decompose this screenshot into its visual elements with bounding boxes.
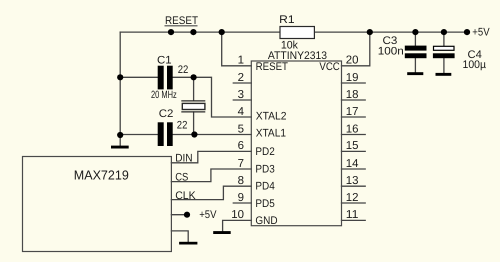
svg-text:2: 2: [238, 72, 244, 84]
svg-text:CS: CS: [175, 172, 188, 184]
junction dot RESET rail left: [168, 29, 174, 35]
svg-text:PD3: PD3: [255, 163, 274, 175]
wire pin 15 stub: [342, 150, 366, 152]
svg-text:22: 22: [178, 64, 189, 76]
svg-text:20: 20: [346, 55, 359, 67]
capacitor C1 22: [157, 54, 188, 89]
net label RESET: [165, 15, 199, 27]
svg-text:XTAL1: XTAL1: [256, 127, 286, 139]
junction dot pin1 riser: [219, 29, 225, 35]
wire pin 16 stub: [342, 134, 366, 136]
ground below C2: [111, 146, 129, 149]
junction dot C3: [412, 29, 418, 35]
svg-text:4: 4: [238, 106, 245, 118]
svg-text:MAX7219: MAX7219: [74, 168, 129, 183]
svg-text:5: 5: [238, 123, 244, 135]
wire pin 14 stub: [342, 168, 366, 170]
svg-text:3: 3: [238, 89, 244, 101]
svg-text:14: 14: [346, 158, 359, 170]
wire DIN to pin 6: [171, 151, 251, 162]
svg-text:18: 18: [346, 89, 359, 101]
wire C1 row to crystal top / XTAL2: [120, 76, 158, 78]
junction dot VCC riser: [367, 29, 373, 35]
wire CS to pin 7: [171, 169, 251, 182]
svg-text:RESET: RESET: [256, 61, 289, 73]
IC U1 ATTINY2313: [251, 50, 341, 227]
+5V supply terminal top right: [464, 27, 490, 39]
wire C2 row to XTAL1: [120, 134, 158, 136]
svg-text:15: 15: [346, 140, 359, 152]
wire crystal vertical bottom: [193, 112, 195, 135]
svg-text:7: 7: [238, 158, 244, 170]
junction dot crystal bottom node: [191, 131, 197, 137]
wire pin 18 stub: [342, 99, 366, 101]
junction dot C4: [441, 29, 447, 35]
svg-text:13: 13: [346, 175, 359, 187]
wire MAX7219 ground: [171, 231, 188, 242]
svg-text:C1: C1: [157, 54, 172, 66]
wire pin 10 GND to ground: [223, 220, 252, 231]
capacitor C2 22: [158, 108, 188, 146]
capacitor C3 100n: [378, 35, 427, 58]
wire top +5V rail: [120, 31, 467, 33]
wire pin 9 stub: [233, 202, 251, 204]
svg-text:PD4: PD4: [255, 181, 274, 193]
svg-text:19: 19: [346, 72, 359, 84]
svg-text:PD5: PD5: [255, 198, 274, 210]
wire CLK to pin 8: [171, 186, 251, 199]
ground at pin 10: [213, 231, 231, 234]
svg-text:20 MHz: 20 MHz: [151, 89, 177, 101]
wire pin 3 stub: [233, 99, 251, 101]
svg-text:DIN: DIN: [175, 153, 192, 165]
resistor R1: [279, 14, 314, 51]
ground below C4: [436, 73, 452, 76]
junction dot crystal top node: [191, 74, 197, 80]
svg-text:9: 9: [238, 192, 244, 204]
wire pin 20 VCC riser: [342, 32, 370, 66]
svg-text:22: 22: [177, 119, 188, 131]
svg-text:CLK: CLK: [175, 190, 196, 202]
wire pin 11 stub: [342, 219, 366, 221]
svg-text:+5V: +5V: [199, 209, 217, 221]
svg-text:8: 8: [238, 175, 244, 187]
svg-text:100n: 100n: [378, 45, 404, 57]
ground below MAX7219: [179, 242, 197, 245]
crystal Q1 20 MHz: [151, 89, 205, 112]
svg-text:16: 16: [346, 123, 359, 135]
svg-text:GND: GND: [255, 215, 277, 227]
junction dot left rail C1: [117, 74, 123, 80]
junction dot RESET rail right: [190, 29, 196, 35]
svg-text:10: 10: [231, 209, 244, 221]
wire pin1 RESET riser: [222, 32, 252, 66]
svg-text:+5V: +5V: [472, 27, 490, 39]
svg-text:R1: R1: [279, 14, 294, 26]
capacitor C4 100u electrolytic: [433, 46, 487, 71]
svg-text:XTAL2: XTAL2: [256, 111, 287, 123]
svg-text:100µ: 100µ: [463, 59, 487, 71]
svg-text:6: 6: [238, 140, 244, 152]
wire MAX7219 +5V stub: [171, 214, 187, 216]
wire pin 13 stub: [342, 185, 366, 187]
wire C3 drop: [414, 32, 416, 46]
svg-text:VCC: VCC: [319, 61, 339, 73]
svg-text:ATTINY2313: ATTINY2313: [268, 50, 327, 62]
svg-text:12: 12: [346, 192, 359, 204]
wire crystal vertical top: [193, 77, 195, 101]
wire C4 drop: [443, 32, 445, 46]
svg-text:PD2: PD2: [255, 146, 274, 158]
IC U2 MAX7219: [23, 157, 172, 252]
wire pin 12 stub: [342, 202, 366, 204]
wire left rail (RESET net down to C1/C2): [119, 32, 121, 135]
junction dot left rail C2: [117, 132, 123, 138]
svg-text:17: 17: [346, 106, 359, 118]
svg-text:11: 11: [346, 209, 359, 221]
svg-text:1: 1: [238, 55, 244, 67]
svg-text:C2: C2: [159, 108, 174, 120]
wire left rail ground stub: [119, 135, 121, 146]
wire pin 19 stub: [342, 82, 366, 84]
+5V supply tap at MAX7219: [184, 209, 217, 221]
ground below C3: [407, 72, 423, 75]
wire pin 2 stub: [233, 82, 251, 84]
wire pin 17 stub: [342, 116, 366, 118]
